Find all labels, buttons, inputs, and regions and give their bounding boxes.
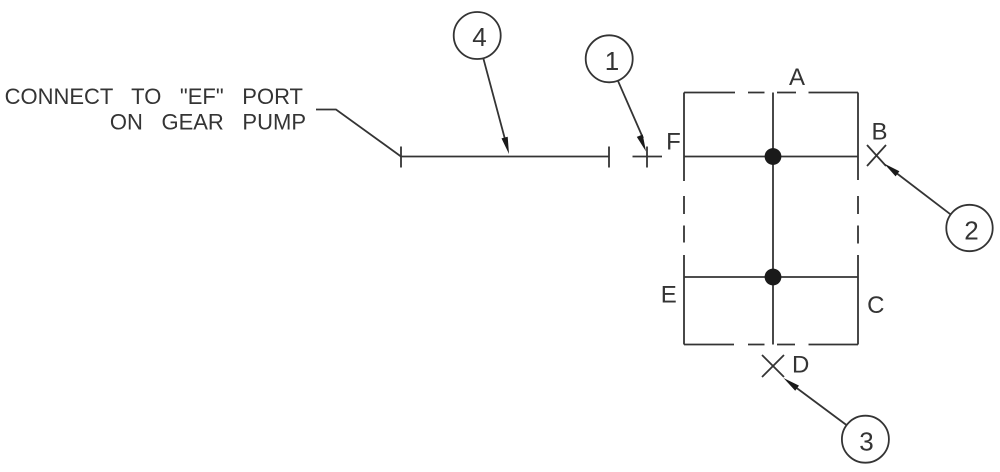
svg-text:E: E <box>661 282 677 309</box>
svg-text:A: A <box>789 64 805 91</box>
svg-text:1: 1 <box>605 46 619 76</box>
svg-text:CONNECT TO "EF" PORT: CONNECT TO "EF" PORT <box>5 84 303 109</box>
svg-text:4: 4 <box>472 22 486 52</box>
svg-text:3: 3 <box>859 427 873 457</box>
svg-text:B: B <box>871 118 887 145</box>
svg-text:D: D <box>792 351 809 378</box>
svg-text:2: 2 <box>964 216 978 246</box>
svg-text:ON GEAR PUMP: ON GEAR PUMP <box>110 110 306 135</box>
svg-text:C: C <box>867 292 884 319</box>
svg-text:F: F <box>666 129 681 156</box>
